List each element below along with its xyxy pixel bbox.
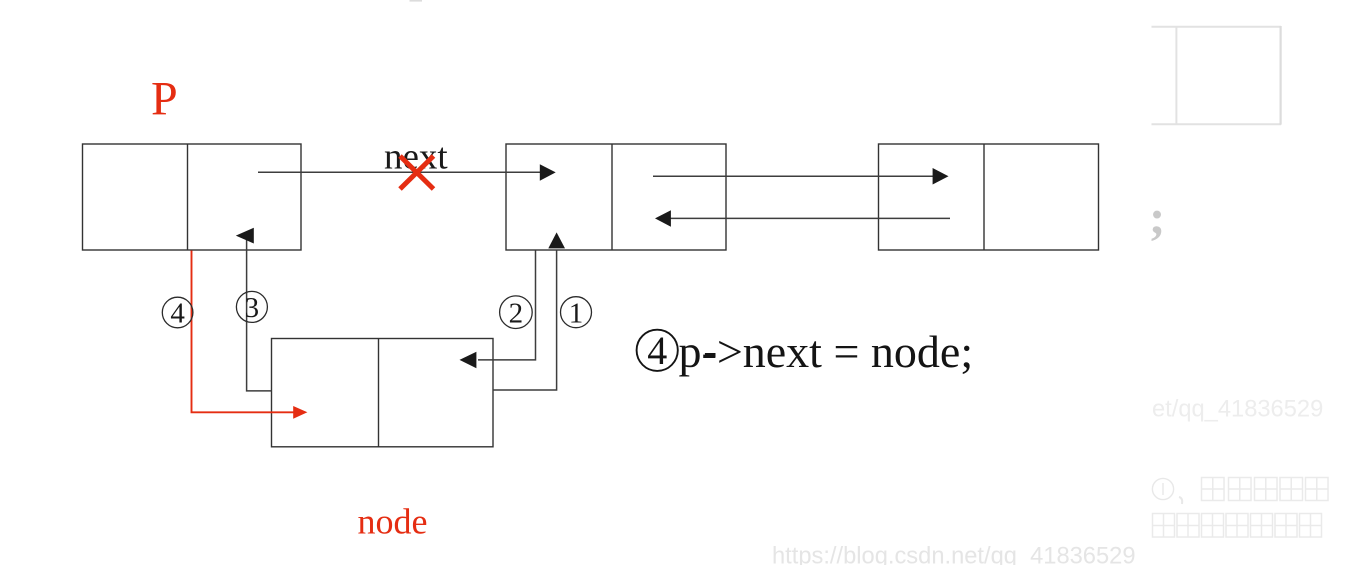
circled 4 label — [162, 297, 193, 329]
svg-text:node: node — [358, 502, 428, 542]
svg-text:p->next = node;: p->next = node; — [679, 326, 974, 377]
faded caption row 1: CJK glyph blocks (hua hong cha de lian) — [1202, 478, 1329, 501]
top edge gray strip — [410, 0, 423, 2]
box 3 — [879, 144, 1099, 250]
svg-text:et/qq_41836529: et/qq_41836529 — [1152, 397, 1323, 423]
wire 1: node -> box2 (arrow up into box2) — [493, 232, 565, 390]
circled 3 label — [236, 291, 267, 324]
svg-text:https://blog.csdn.net/qq_41836: https://blog.csdn.net/qq_41836529 — [772, 544, 1136, 565]
svg-text:4: 4 — [170, 298, 185, 330]
faded caption row 1: fullwidth comma — [1179, 497, 1182, 504]
faded caption row 2: CJK glyph blocks (de jie dian yi jing bu neng) — [1153, 514, 1322, 538]
svg-text:1: 1 — [569, 297, 584, 329]
statement: circled 4 — [637, 328, 678, 373]
svg-text:P: P — [151, 73, 178, 126]
box 2 — [506, 144, 726, 250]
svg-text:;: ; — [1149, 190, 1165, 245]
circled 2 label — [500, 296, 533, 329]
wire: P.next -> box2 (crossed out) — [258, 164, 556, 181]
box P (node 1) — [83, 144, 302, 250]
node box — [272, 339, 494, 447]
circled 1 label — [561, 297, 592, 330]
svg-text:4: 4 — [647, 328, 667, 373]
faded box (grayed next-step box, top right) — [1152, 26, 1282, 125]
wire 2: box2 -> node (arrow left into node right cell) — [460, 250, 536, 368]
svg-text:3: 3 — [245, 292, 260, 324]
statement hyphen bold overlay — [705, 353, 716, 358]
red X cross-out — [400, 156, 434, 189]
faded caption row 1: circled 1 — [1152, 478, 1173, 499]
svg-text:2: 2 — [509, 297, 524, 329]
wire 4 (red): P -> node — [192, 251, 308, 419]
wire 3: node -> P (arrow up into box P) — [236, 228, 272, 391]
wire: box2 -> box3 — [653, 168, 949, 185]
wire: box3 -> box2 (back pointer) — [655, 210, 950, 227]
